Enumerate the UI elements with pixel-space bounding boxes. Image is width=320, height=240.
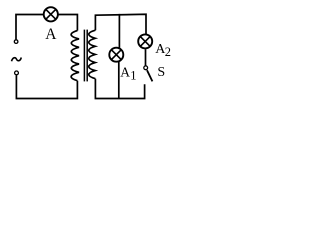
svg-text:A: A — [45, 26, 57, 43]
svg-text:S: S — [157, 65, 165, 80]
svg-text:A: A — [120, 65, 130, 80]
svg-text:1: 1 — [130, 69, 136, 83]
svg-text:2: 2 — [165, 45, 171, 59]
